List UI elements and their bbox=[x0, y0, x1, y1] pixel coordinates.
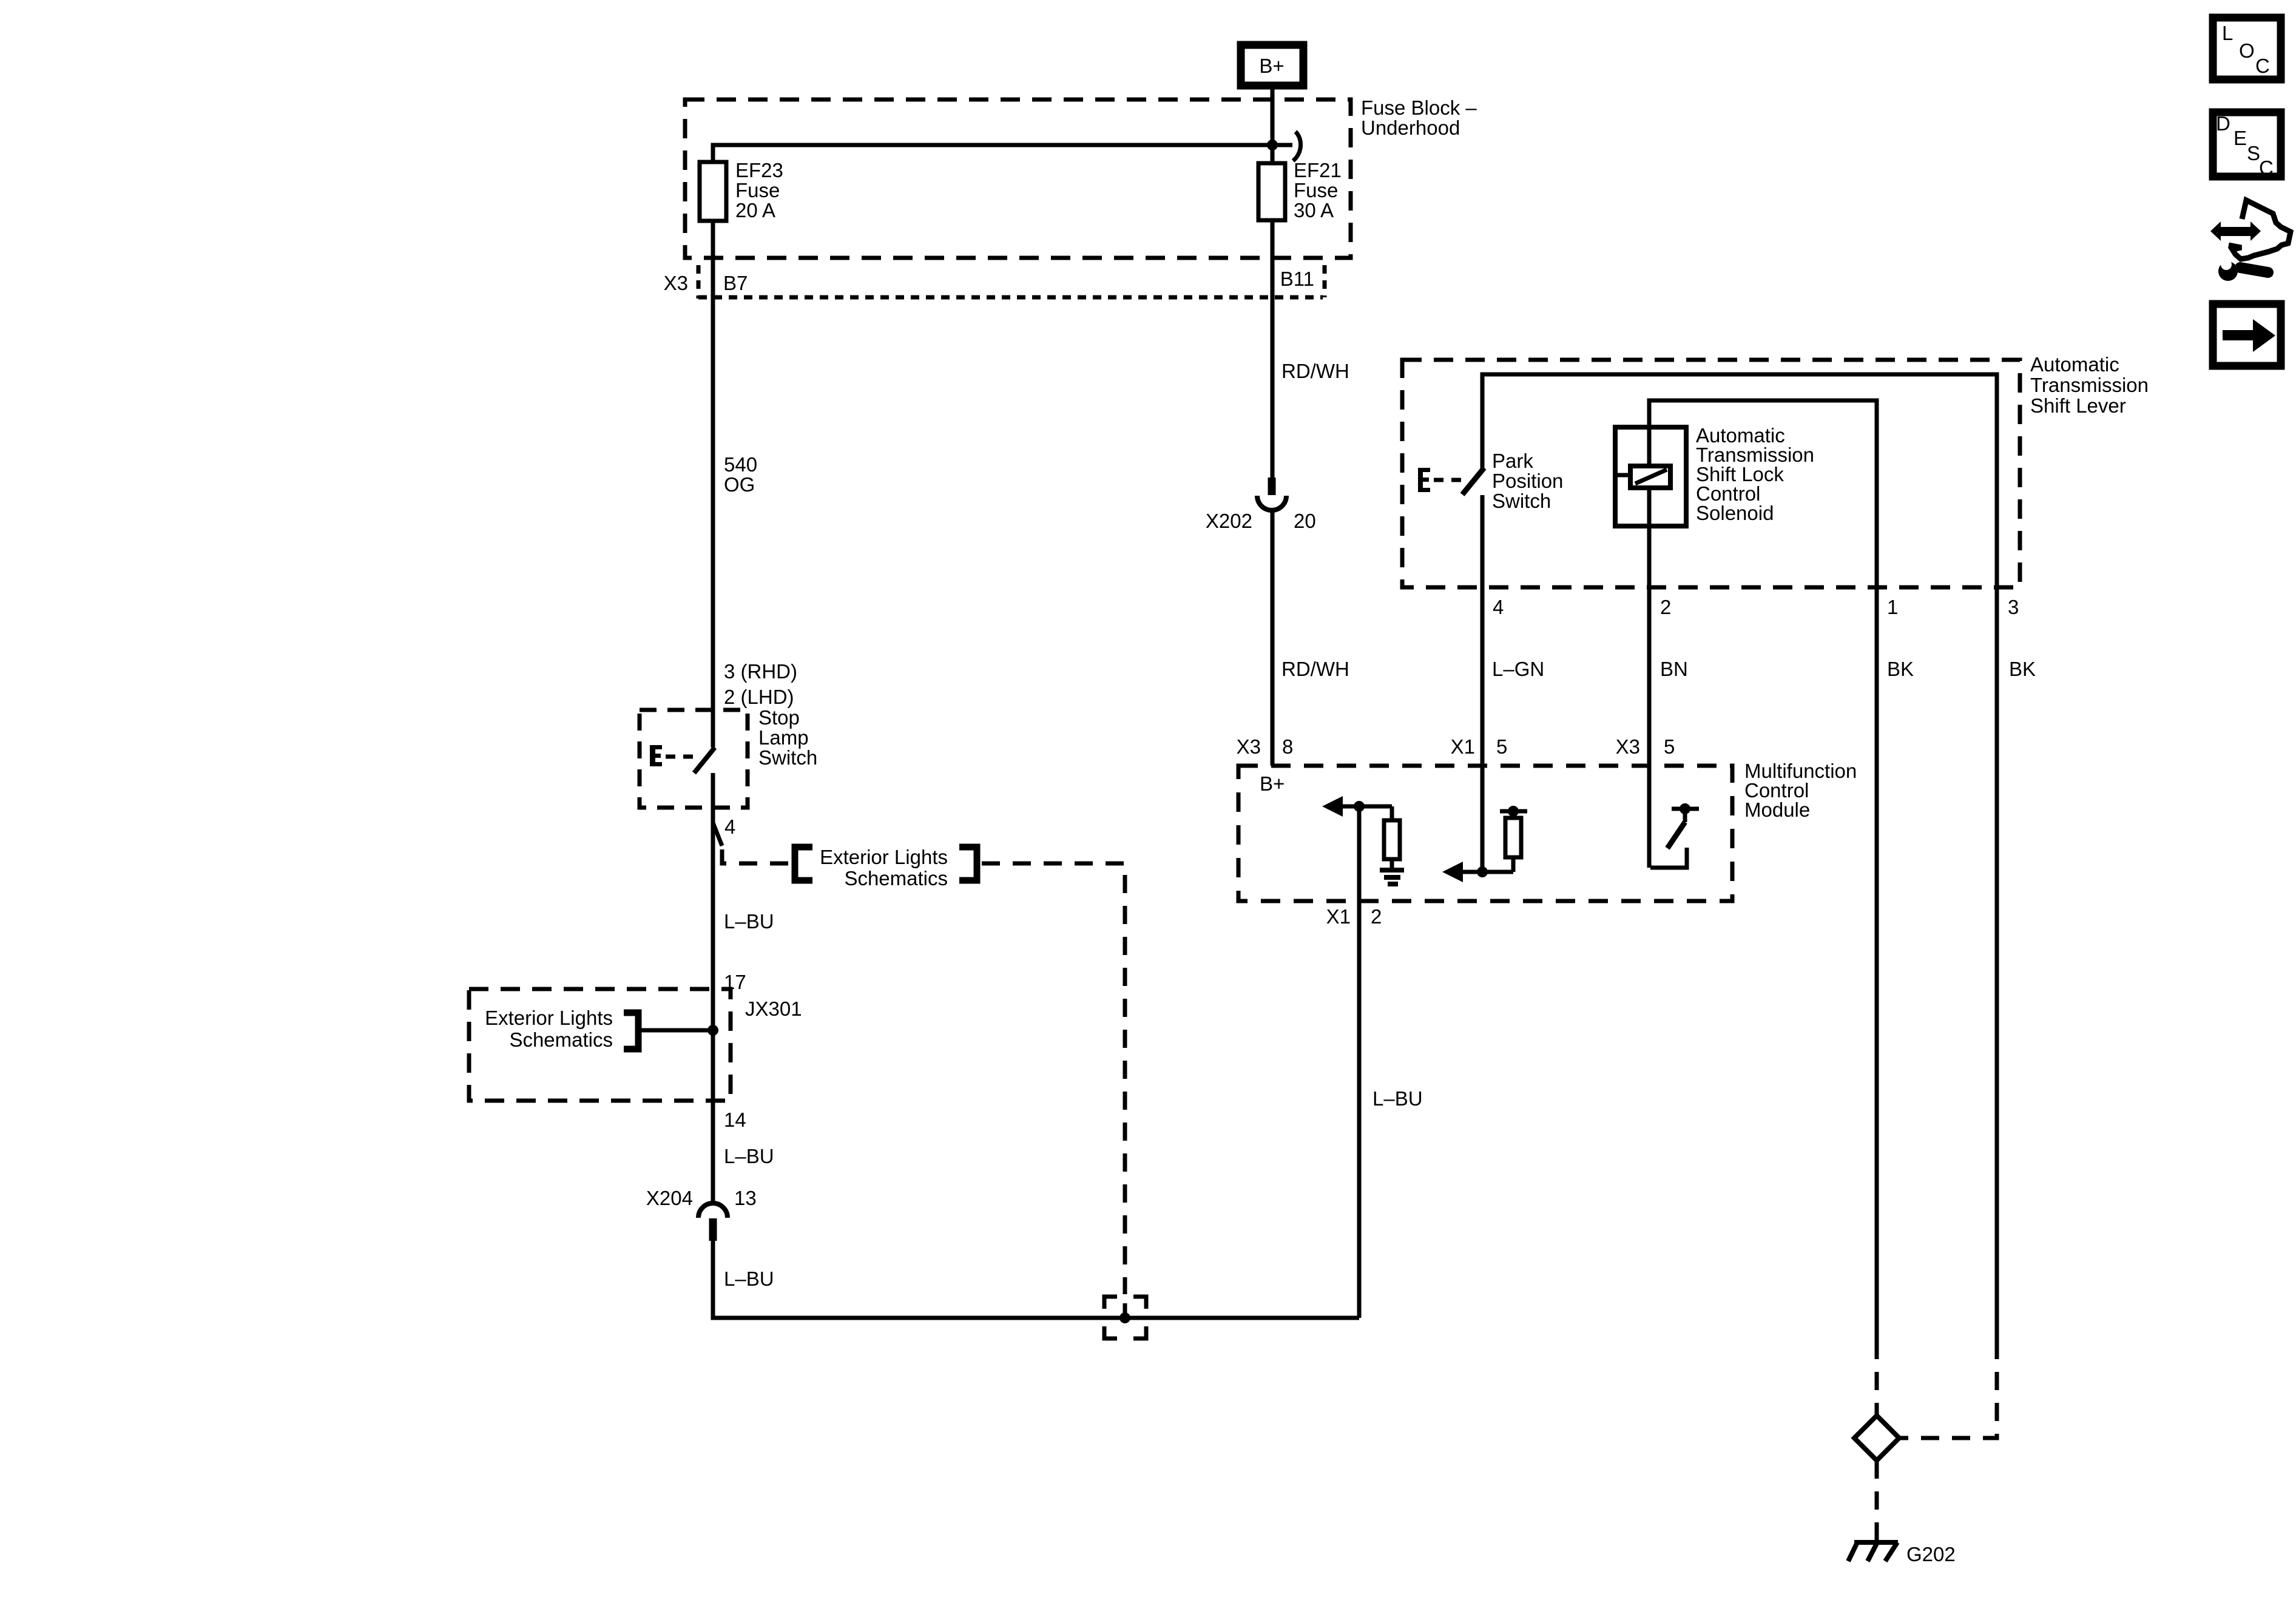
svg-text:L–BU: L–BU bbox=[724, 1145, 774, 1167]
svg-text:S: S bbox=[2247, 142, 2260, 164]
stop lamp switch bbox=[640, 706, 817, 808]
svg-text:B11: B11 bbox=[1280, 268, 1314, 290]
svg-text:30 A: 30 A bbox=[1294, 199, 1334, 221]
icon LOC bbox=[2213, 18, 2281, 79]
wire feed to EF23 bbox=[713, 145, 1292, 162]
splice dashed box corners bbox=[1104, 1297, 1146, 1338]
svg-text:G202: G202 bbox=[1906, 1543, 1956, 1565]
icon next-page arrow bbox=[2213, 304, 2281, 366]
junction dot on X1|2 net bbox=[1354, 801, 1365, 812]
fuse block underhood dashed box bbox=[685, 100, 1351, 258]
park position switch blade bbox=[1462, 468, 1484, 495]
svg-text:Module: Module bbox=[1744, 798, 1810, 821]
svg-text:C: C bbox=[2255, 55, 2270, 77]
junction dot JX301 bbox=[707, 1025, 718, 1036]
svg-text:OG: OG bbox=[724, 473, 755, 496]
icon DESC bbox=[2213, 112, 2281, 179]
svg-text:Schematics: Schematics bbox=[844, 867, 948, 890]
svg-text:B7: B7 bbox=[723, 272, 748, 294]
svg-text:14: 14 bbox=[724, 1109, 746, 1131]
bracket right bbox=[959, 847, 977, 880]
wire below blade through pin 4 bbox=[711, 773, 715, 1203]
junction dot on X1|5 net bbox=[1477, 866, 1488, 877]
wire bracket to JX301 junction bbox=[641, 1028, 713, 1033]
svg-text:5: 5 bbox=[1664, 735, 1675, 758]
svg-text:Switch: Switch bbox=[1492, 490, 1551, 512]
svg-text:8: 8 bbox=[1282, 735, 1293, 758]
svg-text:RD/WH: RD/WH bbox=[1281, 658, 1349, 680]
svg-text:BK: BK bbox=[2009, 658, 2036, 680]
svg-text:Stop: Stop bbox=[758, 706, 800, 729]
bracket to junction bbox=[624, 1013, 638, 1049]
svg-text:1: 1 bbox=[1887, 596, 1898, 618]
svg-text:Shift Lever: Shift Lever bbox=[2030, 394, 2126, 417]
svg-text:L–BU: L–BU bbox=[724, 1268, 774, 1290]
connector strip X3 row bbox=[664, 265, 1325, 299]
svg-text:X1: X1 bbox=[1326, 905, 1351, 928]
junction node at fuse feed bbox=[1267, 140, 1278, 150]
svg-text:4: 4 bbox=[1493, 596, 1504, 618]
svg-text:X3: X3 bbox=[1616, 735, 1640, 758]
svg-text:5: 5 bbox=[1496, 735, 1507, 758]
splice junction dot bbox=[1123, 1303, 1127, 1314]
svg-text:4: 4 bbox=[724, 815, 735, 838]
svg-text:Fuse Block –: Fuse Block – bbox=[1361, 96, 1477, 119]
svg-text:Fuse: Fuse bbox=[1294, 179, 1338, 201]
svg-text:L–GN: L–GN bbox=[1492, 658, 1544, 680]
svg-text:Fuse: Fuse bbox=[735, 179, 780, 201]
svg-text:2: 2 bbox=[1660, 596, 1671, 618]
BK wire pin 3 dashed to splice bbox=[1899, 1341, 1997, 1438]
svg-text:EF23: EF23 bbox=[735, 159, 783, 181]
svg-text:X204: X204 bbox=[646, 1187, 693, 1209]
exterior lights schematics box (left) bbox=[469, 989, 731, 1101]
MCM internal switch bbox=[1650, 803, 1699, 868]
dashed branch wire right segment down to splice bbox=[982, 863, 1125, 1294]
resistor R2 bbox=[1511, 857, 1516, 872]
svg-text:BN: BN bbox=[1660, 658, 1688, 680]
svg-text:RD/WH: RD/WH bbox=[1281, 360, 1349, 382]
svg-text:Exterior Lights: Exterior Lights bbox=[820, 846, 948, 868]
fuse EF21 bbox=[1258, 159, 1342, 221]
svg-text:X3: X3 bbox=[664, 272, 688, 294]
svg-text:B+: B+ bbox=[1260, 772, 1285, 795]
svg-text:Switch: Switch bbox=[758, 746, 817, 769]
svg-text:Solenoid: Solenoid bbox=[1696, 502, 1774, 524]
resistor R1 bbox=[1384, 820, 1400, 859]
wire B+ down to EF21 bbox=[1271, 86, 1275, 163]
MCM internal arrow 1 bbox=[1322, 796, 1343, 817]
svg-text:EF21: EF21 bbox=[1294, 159, 1342, 181]
svg-text:B+: B+ bbox=[1259, 55, 1284, 77]
svg-text:Lamp: Lamp bbox=[758, 726, 809, 749]
splice diamond bbox=[1854, 1416, 1899, 1460]
fuse EF23 bbox=[700, 159, 783, 221]
bracket left bbox=[795, 847, 812, 880]
svg-text:X202: X202 bbox=[1206, 510, 1252, 532]
shift lock solenoid bbox=[1615, 427, 1686, 526]
svg-text:20: 20 bbox=[1294, 510, 1316, 532]
svg-text:Park: Park bbox=[1492, 450, 1533, 472]
svg-text:2: 2 bbox=[1371, 905, 1382, 928]
stop lamp switch blade bbox=[694, 748, 715, 773]
svg-text:Underhood: Underhood bbox=[1361, 116, 1460, 139]
svg-text:X3: X3 bbox=[1237, 735, 1261, 758]
resistor R1 feed corner bbox=[1390, 806, 1394, 820]
svg-text:C: C bbox=[2259, 157, 2274, 179]
wire solenoid down to MCM X3|5 bbox=[1647, 526, 1652, 868]
svg-text:3 (RHD): 3 (RHD) bbox=[724, 660, 797, 683]
branch stub to exterior lights schematics bbox=[713, 823, 722, 846]
svg-text:Transmission: Transmission bbox=[2030, 374, 2149, 396]
svg-text:L–BU: L–BU bbox=[1373, 1087, 1423, 1110]
svg-text:13: 13 bbox=[734, 1187, 757, 1209]
svg-text:X1: X1 bbox=[1451, 735, 1475, 758]
internal node bar above R2 bbox=[1500, 809, 1527, 814]
svg-text:E: E bbox=[2234, 127, 2247, 149]
svg-text:540: 540 bbox=[724, 453, 757, 476]
svg-text:Position: Position bbox=[1492, 470, 1563, 492]
E connection symbol bbox=[650, 745, 693, 766]
svg-text:3: 3 bbox=[2008, 596, 2019, 618]
svg-text:Automatic: Automatic bbox=[2030, 353, 2119, 376]
power feed B+ box bbox=[1241, 45, 1303, 86]
BK wire pin 1 solid bbox=[1875, 587, 1879, 1341]
icon diagnostic arrow-wrench bbox=[2210, 200, 2291, 281]
dashed branch wire left segment bbox=[722, 849, 790, 863]
svg-text:20 A: 20 A bbox=[735, 199, 775, 221]
MCM internal arrow 2 bbox=[1442, 862, 1463, 882]
wire solenoid top rail to pin 1 bbox=[1649, 400, 1877, 587]
wire park switch top rail to pin 3 bbox=[1482, 374, 1997, 587]
inline connector X202 bbox=[1206, 478, 1316, 532]
wire EF21 output down bbox=[1271, 220, 1275, 479]
splice hook symbol bbox=[1293, 132, 1301, 161]
svg-text:O: O bbox=[2239, 39, 2255, 62]
wire MCM X1|2 down to bottom run bbox=[1357, 806, 1362, 1318]
svg-text:BK: BK bbox=[1887, 658, 1914, 680]
BK wire pin 3 solid bbox=[1995, 587, 1999, 1341]
svg-text:D: D bbox=[2216, 112, 2230, 135]
dashed wire diamond to ground bbox=[1875, 1460, 1879, 1541]
ground G202 bbox=[1848, 1542, 1898, 1561]
wire park switch down to MCM X1|5 bbox=[1481, 495, 1485, 872]
multifunction control module dashed box bbox=[1238, 766, 1732, 901]
wire X204 down and bottom run to MCM X1|2 bbox=[713, 1241, 1359, 1318]
wire EF23 output down to stop lamp switch bbox=[711, 221, 715, 748]
inline connector X204 bbox=[646, 1187, 757, 1241]
svg-text:JX301: JX301 bbox=[745, 998, 802, 1020]
svg-text:Exterior Lights: Exterior Lights bbox=[485, 1007, 613, 1029]
BK wire pin 1 dashed to splice bbox=[1875, 1341, 1879, 1416]
svg-text:L: L bbox=[2222, 22, 2233, 44]
automatic transmission shift lever dashed box bbox=[1402, 360, 2020, 587]
wire X202 to MCM X3|8 bbox=[1271, 511, 1275, 766]
svg-text:Schematics: Schematics bbox=[509, 1028, 613, 1051]
park position switch E symbol bbox=[1418, 468, 1461, 492]
signal ground in MCM bbox=[1380, 868, 1404, 886]
svg-text:2 (LHD): 2 (LHD) bbox=[724, 686, 794, 708]
svg-text:L–BU: L–BU bbox=[724, 910, 774, 933]
